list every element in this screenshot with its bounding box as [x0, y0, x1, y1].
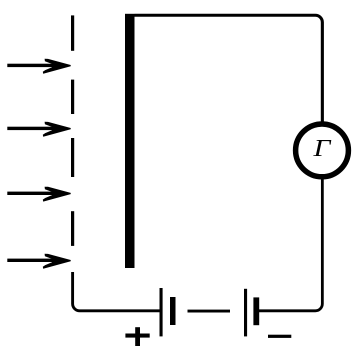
- battery mid wire dash (omitted cells): [188, 310, 231, 313]
- dashed light wavefront line (dash 1): [71, 15, 74, 50]
- plus label: horizontal bar: [125, 334, 149, 338]
- battery cell 1 short (-) plate: [170, 297, 176, 325]
- minus label: [268, 335, 291, 338]
- galvanometer U1 circle: [296, 124, 349, 177]
- light ray arrow 1 shaft: [7, 64, 57, 67]
- light ray arrow 4 head: [43, 254, 71, 269]
- wire from galvanometer bottom to bottom-right rounded corner, left along bottom: [259, 179, 322, 311]
- photocathode plate electrode: [125, 14, 135, 268]
- battery cell 1 long (+) plate: [160, 288, 163, 336]
- light ray arrow 2 shaft: [7, 127, 57, 130]
- svg-text:Γ: Γ: [312, 134, 332, 161]
- battery cell 2 short (-) plate: [253, 297, 259, 325]
- light ray arrow 1 head: [43, 59, 71, 74]
- dashed light wavefront line (dash 2): [71, 80, 74, 114]
- dashed light wavefront line (dash 4): [71, 211, 74, 246]
- battery cell 2 long (+) plate: [244, 289, 247, 337]
- light ray arrow 3 shaft: [7, 192, 57, 195]
- dashed light wavefront line (dash 3): [71, 138, 74, 177]
- light ray arrow 3 head: [43, 187, 71, 202]
- wire from plate top to right side with rounded top-right corner, down to galvanometer: [135, 15, 323, 121]
- light ray arrow 4 shaft: [7, 259, 57, 262]
- wire from dashed line bottom down to bottom-left rounded corner, right to battery: [73, 272, 160, 311]
- light ray arrow 2 head: [43, 122, 71, 137]
- plus label: vertical bar: [135, 327, 140, 346]
